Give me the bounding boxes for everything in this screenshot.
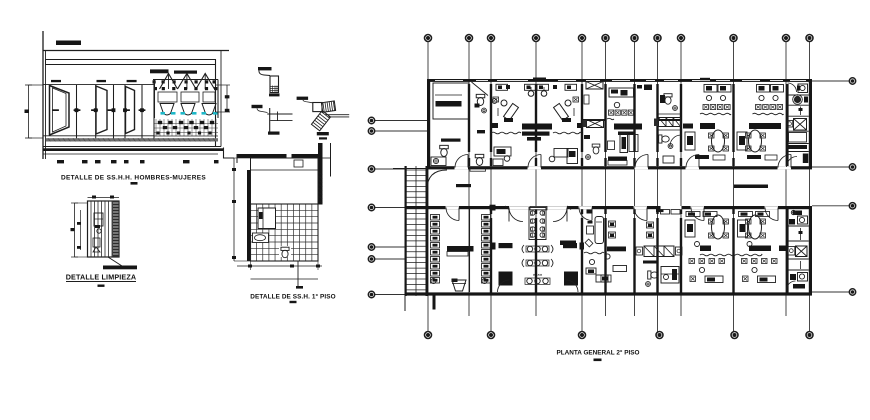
svg-text:DETALLE LIMPIEZA: DETALLE LIMPIEZA [66,273,137,282]
svg-text:DETALLE DE SS.H. 1° PISO: DETALLE DE SS.H. 1° PISO [250,293,335,301]
svg-text:DETALLE DE SS.H.H. HOMBRES-MUJ: DETALLE DE SS.H.H. HOMBRES-MUJERES [61,175,206,182]
svg-text:PLANTA GENERAL 2° PISO: PLANTA GENERAL 2° PISO [556,349,639,357]
svg-text:××××: ×××× [533,272,543,277]
